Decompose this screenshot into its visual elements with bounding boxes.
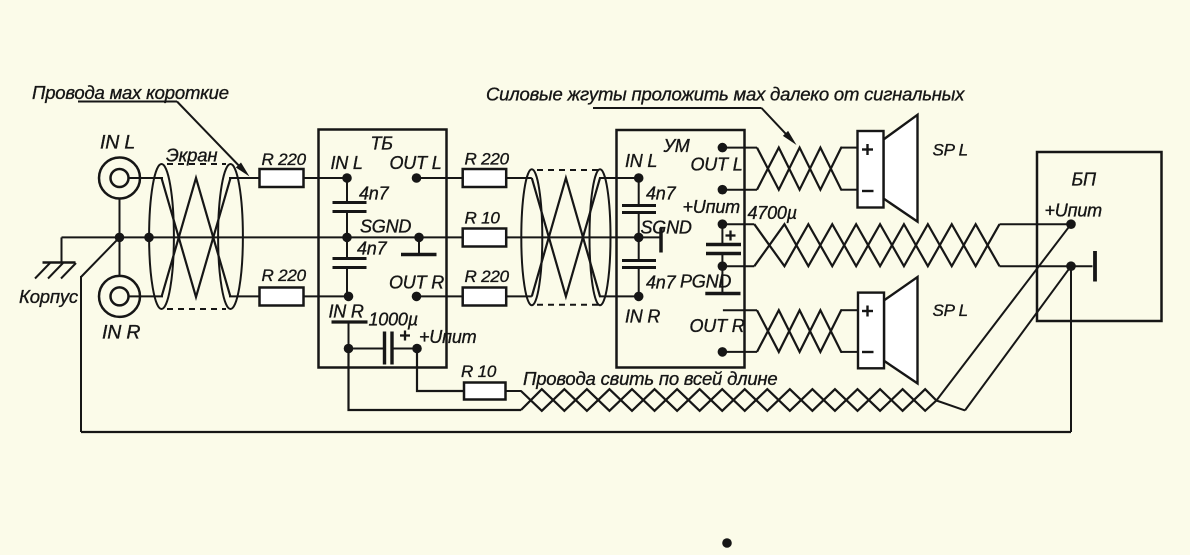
wire bottom ground bus — [81, 431, 1071, 433]
cable W1 twisted strand B — [162, 178, 231, 297]
block TB (tone board) outline — [319, 130, 447, 368]
wire to speaker - terminal — [842, 189, 858, 191]
svg-text:OUT R: OUT R — [389, 273, 444, 293]
stray dot (bottom centre) — [722, 538, 732, 548]
polarity + of 4700u — [726, 234, 736, 236]
wire OUT L to twisted pair — [722, 147, 757, 149]
wire power pair to PSU +Uпит — [1000, 223, 1072, 225]
svg-text:4n7: 4n7 — [646, 184, 677, 204]
block БП (power supply) outline — [1037, 152, 1162, 321]
svg-text:БП: БП — [1072, 170, 1098, 190]
wire TB ground down-left to twisted run — [349, 349, 522, 411]
svg-text:R 220: R 220 — [262, 266, 307, 285]
svg-text:1000µ: 1000µ — [369, 310, 418, 330]
svg-text:ТБ: ТБ — [371, 134, 394, 154]
svg-text:R 220: R 220 — [465, 150, 510, 169]
polarity - (speaker top) — [862, 190, 874, 192]
shielded cable W1 right ellipse — [218, 164, 243, 309]
svg-text:SGND: SGND — [641, 218, 692, 238]
terminal bar under IN R label — [332, 320, 368, 323]
wire speaker L return to UM — [722, 189, 757, 191]
resistor R2 220 (IN R) — [260, 288, 304, 306]
twisted pair to SP R strand A — [757, 310, 842, 352]
svg-text:OUT L: OUT L — [691, 155, 743, 175]
svg-text:OUT R: OUT R — [690, 316, 745, 336]
annotation "Провода мах короткие" with leader arrow — [32, 82, 250, 177]
node IN L (UM) — [634, 173, 644, 183]
node IN R (UM) — [634, 292, 644, 302]
cable W1 twisted strand A — [162, 178, 231, 297]
cable W1 shield dashed top — [167, 163, 226, 165]
svg-text:IN L: IN L — [100, 132, 135, 154]
node SGND (UM) — [634, 233, 644, 243]
polarity - (speaker bottom) — [862, 351, 874, 353]
connector IN L (RCA jack) — [99, 158, 140, 199]
svg-text:SGND: SGND — [360, 217, 411, 237]
svg-text:Экран: Экран — [166, 145, 217, 166]
cable W1 shield dashed bottom — [167, 308, 226, 310]
node ground bus junction — [115, 233, 125, 243]
block UM (power amplifier) outline — [617, 130, 745, 368]
chassis ground (Корпус) — [35, 263, 76, 279]
svg-text:+Uпит: +Uпит — [1045, 201, 1103, 221]
polarity + of 1000u — [400, 334, 410, 336]
svg-text:IN R: IN R — [625, 307, 660, 327]
wire twisted run tail — [936, 401, 965, 411]
connector IN R (RCA jack) — [99, 276, 140, 317]
terminal bar SGND (UM) — [659, 228, 663, 253]
wire left vertical down to bottom bus — [80, 276, 82, 432]
wire UM to speaker R + (twisted pair feed) — [723, 309, 757, 311]
svg-text:IN L: IN L — [625, 151, 657, 171]
capacitor 4n7 (TB upper) — [333, 178, 367, 237]
svg-text:4700µ: 4700µ — [748, 203, 797, 223]
polarity + (speaker top) — [862, 148, 873, 150]
wire R10 to UM SGND — [506, 236, 661, 238]
cable W2 twisted strand A — [532, 178, 600, 296]
node OUT L (TB) — [412, 173, 422, 183]
wire cable W2 to UM IN R — [599, 295, 639, 297]
speaker SP L (bottom) body — [858, 293, 884, 369]
svg-text:IN R: IN R — [329, 302, 364, 322]
wire +Uпит to power twisted pair — [722, 223, 754, 225]
svg-text:Провода свить по всей длине: Провода свить по всей длине — [523, 368, 778, 389]
node TB +Uпит (right of 1000u) — [412, 344, 422, 354]
resistor R3 220 (OUT L to UM) — [463, 169, 507, 187]
speaker SP L (top) horn — [884, 115, 918, 222]
svg-text:Корпус: Корпус — [19, 286, 79, 307]
terminal stub PGND (UM) — [705, 266, 740, 293]
terminal bar PSU ground — [1071, 251, 1095, 282]
capacitor 4n7 (TB lower) — [333, 237, 367, 296]
polarity + (speaker bottom) — [862, 310, 873, 312]
resistor R1 220 (IN L) — [260, 169, 304, 187]
svg-text:4n7: 4n7 — [646, 273, 677, 293]
node IN L (TB) — [342, 173, 352, 183]
cable W2 shield dashed top — [537, 169, 601, 171]
svg-text:+Uпит: +Uпит — [419, 327, 477, 347]
power twisted pair strand A — [754, 224, 999, 266]
svg-text:R 10: R 10 — [461, 362, 497, 381]
diagonal wire twisted run to PSU ground — [965, 266, 1071, 410]
wire to speaker + terminal — [842, 147, 858, 149]
wire OUT R to R220 — [417, 295, 532, 297]
diagonal wire twisted run to PSU +Uпит — [936, 224, 1071, 400]
annotation "Силовые жгуты проложить мах далеко от сигнальных" with leader arrow — [486, 84, 965, 146]
svg-text:IN R: IN R — [102, 322, 140, 344]
capacitor C 1000u electrolytic — [349, 332, 418, 365]
svg-text:SP L: SP L — [933, 141, 968, 160]
svg-text:IN L: IN L — [331, 153, 363, 173]
node SGND right (TB) — [414, 233, 424, 243]
svg-text:Провода мах короткие: Провода мах короткие — [32, 82, 229, 103]
wire R10 to twisted run — [506, 390, 522, 392]
node SGND left (TB) — [342, 233, 352, 243]
speaker SP L (top) body — [858, 131, 884, 208]
svg-text:УМ: УМ — [663, 136, 690, 156]
cable W2 twisted strand B — [532, 178, 600, 296]
capacitor 4n7 (UM upper) — [622, 178, 656, 237]
wire cable to R220 and into TB (IN R row) — [229, 295, 349, 297]
wire cable W2 to UM IN L — [599, 177, 639, 179]
shielded cable W1 left ellipse (Экран) — [149, 164, 174, 309]
wire to speaker + terminal — [842, 309, 858, 311]
svg-text:OUT L: OUT L — [390, 153, 442, 173]
resistor R6 10 (supply twisted run) — [464, 383, 506, 400]
twisted pair to SP L strand B — [757, 148, 842, 190]
wire ground bus (SGND run to TB and R10) — [62, 236, 463, 238]
svg-text:4n7: 4n7 — [359, 184, 390, 204]
wire to speaker - terminal — [842, 351, 858, 353]
resistor R4 10 (SGND link) — [463, 229, 507, 247]
twisted pair to SP R strand B — [757, 310, 842, 352]
wire OUT R to twisted pair — [722, 351, 757, 353]
svg-text:+Uпит: +Uпит — [683, 197, 741, 217]
node shield to ground bus — [144, 233, 154, 243]
svg-text:PGND: PGND — [680, 272, 731, 292]
svg-text:R 220: R 220 — [262, 150, 307, 169]
wire IN R to cable — [128, 295, 163, 297]
capacitor 4n7 (UM lower) — [622, 237, 656, 296]
capacitor C 4700u electrolytic — [706, 224, 741, 266]
svg-text:4n7: 4n7 — [357, 239, 388, 259]
wire bottom bus rise to PSU — [1070, 266, 1072, 432]
wire PGND to power twisted pair — [722, 265, 754, 267]
node OUT R (UM) — [718, 347, 728, 357]
node speaker L return (UM) — [718, 185, 728, 195]
power twisted pair strand B — [754, 224, 999, 266]
node IN R (TB) — [344, 292, 354, 302]
node +Uпит (UM) — [718, 219, 728, 229]
terminal stub SGND (TB) — [401, 237, 437, 254]
twisted pair to SP L strand A — [757, 148, 842, 190]
svg-text:R 220: R 220 — [465, 267, 510, 286]
wire bus drop to chassis — [61, 237, 63, 262]
node TB ground (left of 1000u) — [344, 344, 354, 354]
wire TB +Uпит down to R10 — [417, 349, 464, 392]
node +Uпит (PSU) — [1066, 219, 1076, 229]
svg-text:Силовые жгуты проложить мах да: Силовые жгуты проложить мах далеко от си… — [486, 84, 965, 105]
cable W2 shield dashed bottom — [537, 304, 601, 306]
wire chassis branch diagonal — [81, 237, 120, 277]
resistor R5 220 (OUT R to UM) — [463, 288, 507, 306]
speaker SP L (bottom) horn — [884, 277, 918, 383]
wire cable to R220 and into TB (IN L row) — [229, 177, 347, 179]
supply twisted run strand A — [521, 389, 936, 411]
shielded cable W2 left ellipse — [521, 169, 542, 305]
shielded cable W2 right ellipse — [590, 169, 611, 305]
wire bar to supply node — [348, 322, 350, 349]
node OUT L (UM) — [718, 143, 728, 153]
node PGND (UM) — [718, 261, 728, 271]
wire connector shields to ground bus — [119, 199, 121, 276]
supply twisted run strand B — [521, 389, 936, 411]
wire OUT L to R220 — [417, 177, 532, 179]
svg-text:R 10: R 10 — [465, 209, 501, 228]
wire power pair to PSU ground — [1000, 265, 1072, 267]
wire IN L to cable — [128, 177, 163, 179]
svg-text:SP L: SP L — [933, 301, 968, 320]
node ground (PSU) — [1066, 261, 1076, 271]
node OUT R (TB) — [412, 292, 422, 302]
